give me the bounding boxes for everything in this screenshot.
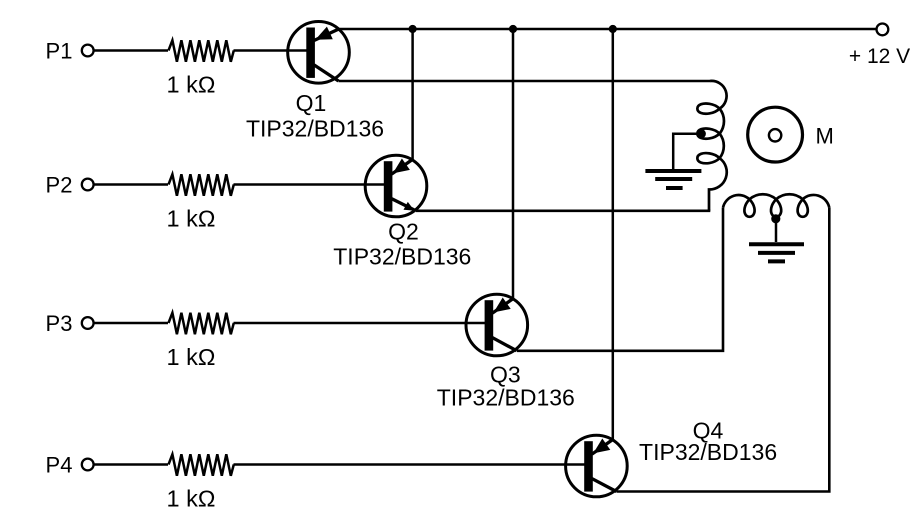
wire Q1 collector to L1: [339, 80, 711, 83]
transistor Q1 body: [288, 22, 350, 84]
transistor Q3 emitter arrow: [494, 298, 511, 313]
wire R1 to Q1 base: [234, 49, 311, 52]
inductor L1 loop: [697, 153, 719, 163]
svg-text:P4: P4: [46, 452, 73, 477]
ground G2 bar 2: [758, 251, 795, 255]
terminal P4: [82, 459, 94, 471]
resistor R3: [169, 313, 234, 335]
transistor Q2 emitter: [392, 159, 413, 174]
inductor L2 loop: [744, 199, 754, 217]
svg-text:P2: P2: [46, 172, 73, 197]
transistor Q2 emitter arrow: [393, 159, 410, 174]
svg-text:TIP32/BD136: TIP32/BD136: [639, 439, 777, 465]
transistor Q3 body: [466, 294, 528, 356]
transistor Q2 collector arrow: [404, 202, 415, 211]
junction dot rail/Q3: [509, 25, 517, 33]
svg-text:P1: P1: [46, 38, 73, 63]
wire Q3 emitter to rail: [512, 29, 515, 299]
resistor R1: [169, 40, 234, 62]
transistor Q1 collector: [314, 65, 339, 81]
junction dot L1 center tap: [697, 129, 706, 138]
wire P2 to R2: [94, 183, 168, 186]
svg-text:1 kΩ: 1 kΩ: [167, 71, 216, 97]
inductor L2 winding: [723, 194, 829, 207]
ground G2 bar 3: [768, 259, 785, 263]
terminal P2: [82, 179, 94, 191]
transistor Q1 emitter arrow: [315, 27, 333, 40]
wire R3 to Q3 base: [234, 322, 489, 325]
resistor R4: [169, 454, 234, 476]
inductor L1 loop: [697, 129, 719, 139]
junction dot L2 center tap: [771, 214, 780, 223]
transistor Q4 body: [566, 435, 628, 497]
transistor Q4 emitter: [592, 439, 613, 454]
terminal P1: [82, 45, 94, 57]
ground G1 bar 2: [655, 177, 692, 181]
ground G1 bar 1: [645, 169, 701, 173]
svg-text:Q3: Q3: [490, 361, 521, 387]
svg-text:1 kΩ: 1 kΩ: [167, 344, 216, 370]
wire L1 to Q2 collector: [416, 210, 710, 213]
transistor Q4 emitter arrow: [593, 439, 610, 454]
terminal P3: [82, 317, 94, 329]
wire P3 to R3: [94, 322, 168, 325]
terminal +12V: [877, 24, 889, 36]
wire Q3 collector to L2: [517, 208, 723, 351]
inductor L2 loop: [771, 199, 781, 217]
transistor Q3 base bar: [485, 300, 494, 350]
transistor Q2 base bar: [384, 161, 393, 211]
transistor Q1 emitter: [314, 29, 339, 41]
svg-text:Q2: Q2: [388, 218, 419, 244]
motor M outer: [748, 107, 803, 162]
wire R2 to Q2 base: [234, 183, 388, 186]
inductor L1 loop: [697, 104, 719, 114]
resistor R2: [169, 174, 234, 196]
inductor L1 winding: [709, 81, 727, 211]
wire P1 to R1: [94, 49, 168, 52]
ground G2 bar 1: [749, 242, 804, 246]
svg-text:TIP32/BD136: TIP32/BD136: [333, 244, 471, 270]
svg-text:+ 12 V: + 12 V: [849, 45, 910, 68]
svg-text:P3: P3: [46, 311, 73, 336]
transistor Q4 base bar: [584, 441, 593, 491]
svg-text:M: M: [816, 124, 834, 149]
transistor Q2 collector: [392, 199, 417, 211]
inductor L2 loop: [798, 199, 808, 217]
transistor Q3 emitter: [492, 298, 513, 313]
svg-text:TIP32/BD136: TIP32/BD136: [246, 116, 384, 142]
transistor Q1 base bar: [306, 28, 315, 78]
wire +12V rail: [337, 28, 877, 31]
wire L2 tap to ground: [775, 219, 778, 242]
wire R4 to Q4 base: [234, 463, 589, 466]
svg-text:TIP32/BD136: TIP32/BD136: [437, 385, 575, 411]
wire Q2 emitter to rail: [411, 29, 414, 160]
svg-text:Q1: Q1: [296, 90, 327, 116]
junction dot rail/Q2: [409, 25, 417, 33]
junction dot rail/Q4: [609, 25, 617, 33]
wire P4 to R4: [94, 463, 168, 466]
motor M hub: [769, 129, 781, 141]
wire L2 to Q4 collector: [616, 208, 829, 492]
ground G1 bar 3: [666, 186, 683, 190]
wire L1 tap to ground: [673, 134, 700, 170]
transistor Q3 collector: [492, 338, 517, 351]
wire Q4 emitter to rail: [612, 29, 615, 440]
transistor Q2 body: [365, 155, 427, 217]
transistor Q4 collector: [592, 479, 617, 492]
svg-text:1 kΩ: 1 kΩ: [167, 205, 216, 231]
svg-text:1 kΩ: 1 kΩ: [167, 485, 216, 511]
